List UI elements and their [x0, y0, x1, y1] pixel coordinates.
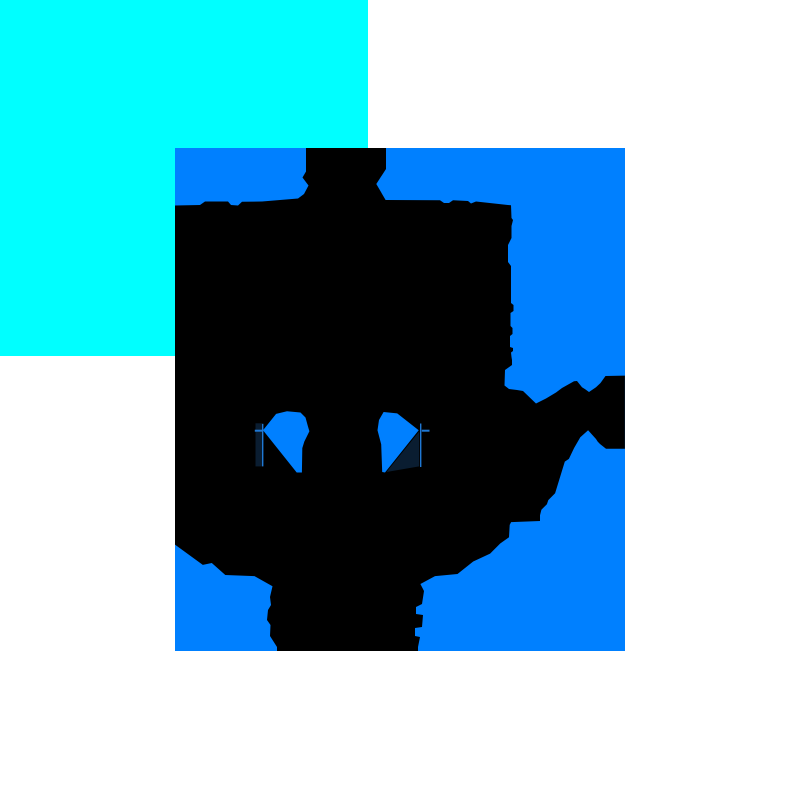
left crosshair vertical line [262, 424, 263, 467]
left navy band [256, 423, 263, 466]
cyan square [0, 0, 368, 356]
right navy triangle [387, 432, 420, 473]
left crosshair tick [255, 430, 262, 432]
blue square [175, 148, 625, 651]
right eye (blue diamond hole) [378, 412, 419, 473]
right crosshair vertical line [420, 424, 421, 468]
black silhouette [175, 148, 625, 651]
right crosshair tick [422, 430, 430, 432]
left eye (blue diamond hole) [263, 411, 309, 472]
